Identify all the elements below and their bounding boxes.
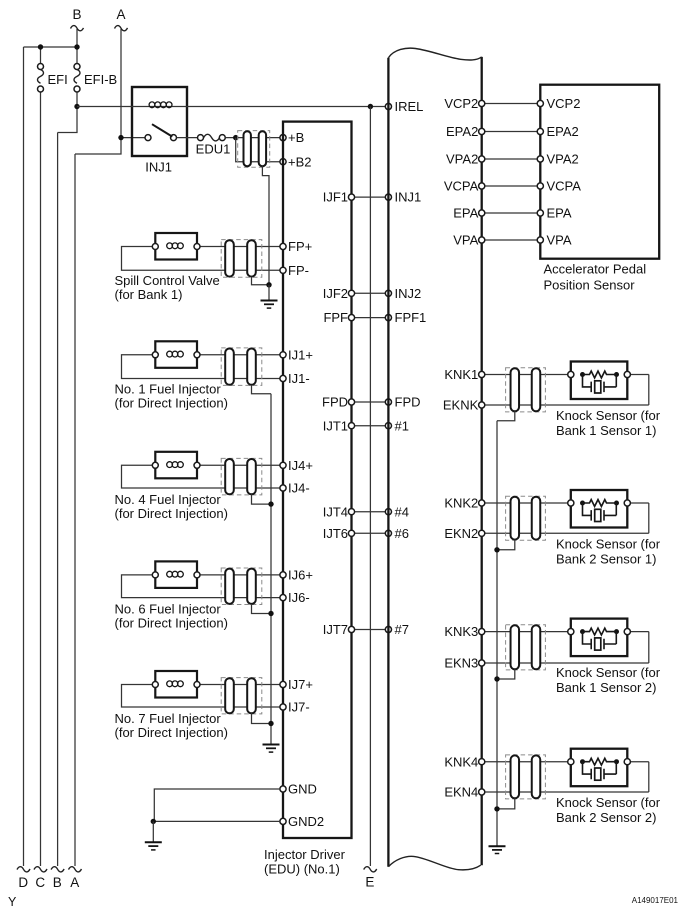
svg-text:(for Bank 1): (for Bank 1)	[115, 287, 183, 302]
svg-text:Bank 2 Sensor 1): Bank 2 Sensor 1)	[556, 551, 656, 566]
svg-text:#7: #7	[395, 622, 409, 637]
svg-text:IJF1: IJF1	[323, 190, 348, 205]
svg-text:#6: #6	[395, 526, 409, 541]
svg-text:#4: #4	[395, 504, 409, 519]
svg-text:EFI: EFI	[48, 72, 68, 87]
svg-text:No. 1 Fuel Injector: No. 1 Fuel Injector	[115, 381, 222, 396]
svg-text:IJT1: IJT1	[323, 418, 348, 433]
svg-text:IJT7: IJT7	[323, 622, 348, 637]
svg-text:IJ7-: IJ7-	[288, 700, 310, 715]
svg-text:Injector Driver: Injector Driver	[264, 847, 346, 862]
svg-text:No. 4 Fuel Injector: No. 4 Fuel Injector	[115, 492, 222, 507]
svg-text:B: B	[72, 7, 81, 22]
svg-text:Knock Sensor (for: Knock Sensor (for	[556, 408, 661, 423]
svg-text:D: D	[18, 875, 28, 890]
svg-text:EPA: EPA	[547, 206, 572, 221]
svg-text:EKN4: EKN4	[444, 785, 478, 800]
svg-text:Y: Y	[8, 895, 17, 909]
svg-text:IREL: IREL	[395, 99, 424, 114]
svg-text:Bank 1 Sensor 1): Bank 1 Sensor 1)	[556, 423, 656, 438]
svg-text:IJ7+: IJ7+	[288, 677, 313, 692]
svg-text:EKN2: EKN2	[444, 526, 478, 541]
svg-text:#1: #1	[395, 418, 409, 433]
svg-text:Bank 2 Sensor 2): Bank 2 Sensor 2)	[556, 810, 656, 825]
svg-text:INJ1: INJ1	[145, 160, 172, 175]
svg-text:Position Sensor: Position Sensor	[544, 278, 636, 293]
svg-text:No. 6 Fuel Injector: No. 6 Fuel Injector	[115, 601, 222, 616]
svg-text:VPA: VPA	[453, 233, 478, 248]
svg-text:IJ4-: IJ4-	[288, 481, 310, 496]
svg-text:Knock Sensor (for: Knock Sensor (for	[556, 665, 661, 680]
svg-text:Accelerator Pedal: Accelerator Pedal	[544, 262, 647, 277]
svg-text:Knock Sensor (for: Knock Sensor (for	[556, 536, 661, 551]
svg-text:KNK3: KNK3	[444, 624, 478, 639]
svg-text:FP+: FP+	[288, 239, 312, 254]
svg-text:VPA2: VPA2	[446, 152, 478, 167]
svg-text:Bank 1 Sensor 2): Bank 1 Sensor 2)	[556, 680, 656, 695]
svg-text:EKNK: EKNK	[443, 398, 479, 413]
svg-text:FP-: FP-	[288, 263, 309, 278]
svg-text:VCPA: VCPA	[444, 179, 479, 194]
svg-text:IJ4+: IJ4+	[288, 458, 313, 473]
svg-text:C: C	[35, 875, 45, 890]
svg-text:IJ1+: IJ1+	[288, 347, 313, 362]
svg-text:KNK4: KNK4	[444, 754, 478, 769]
svg-text:+B: +B	[288, 130, 304, 145]
svg-text:IJ1-: IJ1-	[288, 371, 310, 386]
svg-text:EPA2: EPA2	[446, 124, 478, 139]
svg-text:VCPA: VCPA	[547, 179, 582, 194]
svg-text:KNK2: KNK2	[444, 496, 478, 511]
svg-text:GND2: GND2	[288, 814, 324, 829]
svg-text:E: E	[365, 875, 374, 890]
svg-text:FPF: FPF	[323, 310, 348, 325]
svg-text:EFI-B: EFI-B	[84, 72, 117, 87]
svg-text:FPD: FPD	[322, 395, 348, 410]
svg-text:INJ1: INJ1	[395, 190, 422, 205]
svg-text:A: A	[116, 7, 125, 22]
svg-text:FPD: FPD	[395, 395, 421, 410]
svg-text:(for Direct Injection): (for Direct Injection)	[115, 395, 228, 410]
svg-text:IJ6+: IJ6+	[288, 568, 313, 583]
svg-text:VCP2: VCP2	[444, 96, 478, 111]
svg-text:(for Direct Injection): (for Direct Injection)	[115, 725, 228, 740]
svg-text:No. 7 Fuel Injector: No. 7 Fuel Injector	[115, 711, 222, 726]
svg-text:VPA2: VPA2	[547, 152, 579, 167]
svg-text:VPA: VPA	[547, 233, 572, 248]
svg-text:FPF1: FPF1	[395, 310, 427, 325]
svg-text:(for Direct Injection): (for Direct Injection)	[115, 506, 228, 521]
svg-text:IJT6: IJT6	[323, 526, 348, 541]
svg-text:(EDU) (No.1): (EDU) (No.1)	[264, 861, 340, 876]
svg-text:(for Direct Injection): (for Direct Injection)	[115, 616, 228, 631]
svg-text:GND: GND	[288, 782, 317, 797]
svg-text:KNK1: KNK1	[444, 367, 478, 382]
svg-text:B: B	[53, 875, 62, 890]
svg-text:+B2: +B2	[288, 154, 312, 169]
svg-text:IJT4: IJT4	[323, 504, 348, 519]
svg-text:EKN3: EKN3	[444, 656, 478, 671]
svg-text:A149017E01: A149017E01	[632, 896, 679, 905]
svg-text:EPA: EPA	[453, 206, 478, 221]
svg-text:EDU1: EDU1	[196, 141, 231, 156]
svg-text:EPA2: EPA2	[547, 124, 579, 139]
svg-text:INJ2: INJ2	[395, 286, 422, 301]
svg-text:IJF2: IJF2	[323, 286, 348, 301]
svg-text:Knock Sensor (for: Knock Sensor (for	[556, 795, 661, 810]
svg-text:IJ6-: IJ6-	[288, 590, 310, 605]
svg-text:Spill Control Valve: Spill Control Valve	[115, 273, 220, 288]
svg-text:VCP2: VCP2	[547, 96, 581, 111]
svg-text:A: A	[70, 875, 79, 890]
